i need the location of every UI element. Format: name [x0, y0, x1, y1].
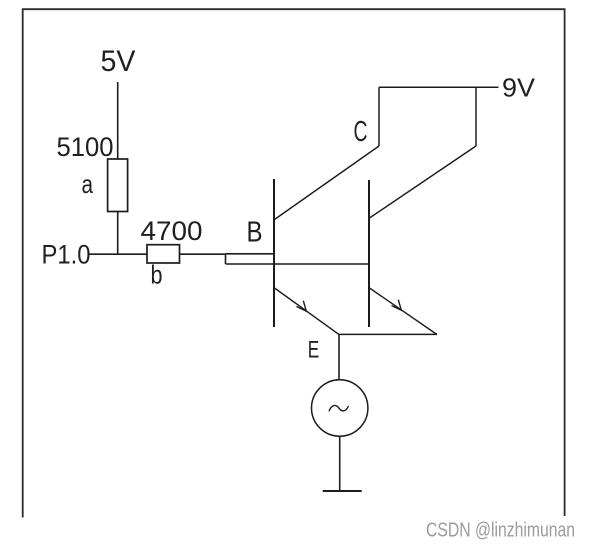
wire 5V to resistor a	[117, 82, 119, 160]
svg-text:C: C	[354, 116, 368, 148]
svg-text:B: B	[247, 217, 263, 249]
svg-text:b: b	[151, 260, 163, 290]
wire collector vertical left	[378, 87, 380, 146]
svg-text:CSDN @linzhimunan: CSDN @linzhimunan	[426, 520, 575, 542]
svg-text:P1.0: P1.0	[42, 240, 91, 270]
svg-text:9V: 9V	[502, 72, 536, 102]
AC source V1 circle	[312, 380, 368, 436]
transistor Q1 emitter lead with arrow	[275, 288, 339, 334]
wire collector vertical right	[475, 87, 477, 146]
wire emitter join	[339, 333, 437, 335]
ground symbol	[323, 490, 362, 492]
wire E to AC source	[338, 334, 340, 380]
transistor Q1 base bar	[273, 179, 275, 327]
wire base line to transistor bars	[226, 263, 370, 265]
wire resistor a to node P1.0	[117, 212, 119, 256]
svg-text:4700: 4700	[141, 216, 203, 246]
svg-text:5V: 5V	[101, 45, 136, 78]
wire P1.0 to resistor b	[90, 253, 148, 255]
AC source sine symbol	[329, 405, 349, 411]
svg-text:E: E	[308, 337, 320, 364]
svg-text:5100: 5100	[57, 132, 114, 162]
wire 9V top rail	[379, 86, 499, 88]
wire AC source to ground	[339, 436, 341, 491]
transistor Q2 base bar	[368, 180, 370, 327]
wire resistor b to base step	[180, 253, 226, 255]
transistor Q2 emitter lead with arrow	[370, 288, 438, 335]
wire base step vertical jog	[225, 254, 227, 264]
resistor b (4700) body	[147, 245, 180, 263]
transistor Q1 collector lead	[275, 146, 380, 220]
transistor Q2 collector lead	[370, 146, 477, 218]
resistor a (5100) body	[108, 159, 128, 212]
wire base step upper segment	[226, 253, 275, 255]
svg-text:a: a	[81, 169, 93, 199]
